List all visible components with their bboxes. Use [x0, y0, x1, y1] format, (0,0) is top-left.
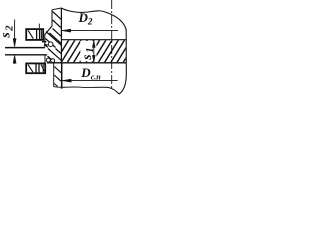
- svg-text:s: s: [79, 54, 94, 60]
- svg-text:1: 1: [85, 48, 96, 53]
- svg-text:s: s: [0, 32, 13, 38]
- svg-text:2: 2: [4, 25, 15, 32]
